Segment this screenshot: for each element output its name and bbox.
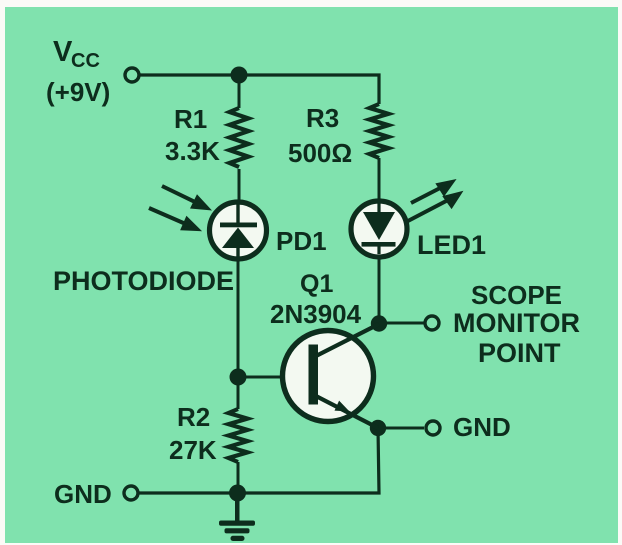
terminal scope monitor point: [425, 316, 439, 330]
svg-text:GND: GND: [453, 412, 511, 442]
svg-text:PHOTODIODE: PHOTODIODE: [53, 266, 234, 296]
wire PD1 to base node: [237, 254, 240, 380]
wire R3 to LED1: [378, 158, 381, 203]
svg-text:LED1: LED1: [417, 230, 486, 260]
resistor R3: [370, 104, 389, 158]
resistor R2: [229, 409, 248, 462]
node base junction: [230, 369, 247, 386]
svg-text:GND: GND: [54, 479, 112, 509]
svg-text:27K: 27K: [169, 435, 217, 465]
ground symbol: [219, 493, 255, 541]
svg-text:R1: R1: [174, 104, 207, 134]
svg-text:R2: R2: [177, 402, 210, 432]
transistor Q1: [283, 324, 380, 428]
light arrows into PD1: [149, 186, 207, 229]
wire left branch upper (Vcc to R1): [238, 75, 241, 108]
node emitter junction: [370, 420, 386, 436]
svg-text:500Ω: 500Ω: [288, 138, 352, 168]
LED LED1: [351, 201, 407, 257]
node ground rail junction: [229, 485, 246, 502]
svg-text:V: V: [53, 36, 73, 68]
svg-text:2N3904: 2N3904: [270, 299, 362, 329]
terminal gnd right: [426, 421, 440, 435]
svg-text:SCOPE: SCOPE: [471, 280, 562, 310]
svg-text:3.3K: 3.3K: [165, 136, 220, 166]
wire gnd stub right: [378, 427, 424, 430]
svg-text:(+9V): (+9V): [46, 77, 110, 107]
terminal Vcc: [125, 68, 139, 82]
svg-text:PD1: PD1: [276, 226, 327, 256]
node top junction: [231, 67, 248, 84]
wire base node to R2: [237, 377, 240, 409]
wire R2 to ground rail: [237, 462, 240, 493]
wire LED1 to collector node: [378, 255, 381, 325]
wire emitter to ground rail: [138, 428, 379, 493]
svg-text:MONITOR: MONITOR: [453, 308, 580, 338]
light arrows out of LED1: [406, 182, 459, 222]
resistor R1: [230, 108, 249, 167]
node collector junction: [371, 315, 387, 331]
svg-text:POINT: POINT: [478, 338, 561, 368]
photodiode PD1: [210, 202, 267, 259]
wire top rail Vcc: [139, 75, 379, 104]
wire scope monitor stub: [379, 322, 425, 325]
svg-text:R3: R3: [306, 103, 339, 133]
terminal gnd left: [124, 486, 138, 500]
wire base: [238, 376, 311, 379]
svg-text:Q1: Q1: [300, 270, 333, 298]
wire R1 to PD1: [238, 169, 241, 206]
svg-text:CC: CC: [71, 50, 100, 72]
